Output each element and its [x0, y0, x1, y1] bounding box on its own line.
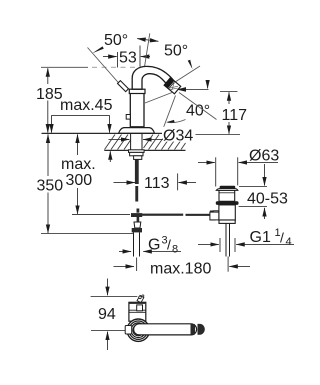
- dimension max.300: [77, 134, 79, 155]
- supply elbow left clip: [125, 326, 132, 335]
- svg-text:117: 117: [222, 107, 248, 124]
- max.180 left extension: [136, 258, 138, 272]
- svg-text:max.: max.: [61, 156, 96, 173]
- G1 1/4 dimension: [219, 238, 221, 252]
- bottom arc arrow: [168, 120, 186, 123]
- drain plug top: [220, 186, 236, 189]
- mounting washer: [129, 150, 145, 153]
- linkage connector: [137, 209, 140, 213]
- drain body: [219, 205, 235, 220]
- max.300 bottom reference line: [72, 214, 130, 216]
- faucet escutcheon: [119, 128, 155, 134]
- supply elbow top stub: [137, 295, 144, 302]
- pop-up rod linkage thin line: [72, 214, 130, 216]
- shallow construction line: [145, 93, 172, 104]
- svg-text:4: 4: [286, 236, 292, 248]
- deck line right tick: [192, 133, 240, 135]
- 40 deg arc arrow tick: [207, 81, 209, 89]
- steep construction line: [164, 96, 176, 128]
- deck hatching left: [105, 135, 131, 150]
- diameter 34 arrows: [109, 138, 130, 140]
- svg-text:350: 350: [37, 178, 64, 195]
- svg-text:40-53: 40-53: [247, 191, 288, 208]
- drain clevis: [210, 211, 213, 220]
- collar: [129, 89, 145, 93]
- dimension 40-53: [264, 164, 266, 175]
- svg-text:Ø63: Ø63: [249, 147, 279, 164]
- faucet shank through deck: [130, 133, 132, 150]
- supply elbow vertical body: [129, 302, 146, 321]
- drain tailpipe: [226, 223, 230, 256]
- 50 deg right arc arrow: [188, 60, 193, 70]
- diameter 63 dimension: [198, 162, 215, 164]
- svg-text:/: /: [280, 230, 284, 246]
- svg-text:185: 185: [36, 86, 63, 103]
- svg-text:max.180: max.180: [150, 261, 211, 278]
- pipe end ring: [191, 324, 196, 335]
- svg-text:max.45: max.45: [60, 97, 113, 114]
- 50 deg left arc arrow: [92, 46, 104, 53]
- dimension 350: [47, 134, 49, 176]
- svg-text:113: 113: [144, 175, 170, 192]
- spout swivel extension line: [143, 33, 150, 77]
- deck hatching right: [144, 135, 186, 150]
- outlet axis line 40 deg: [179, 93, 217, 120]
- pop-up knob: [126, 115, 130, 120]
- drain gasket: [216, 201, 239, 205]
- svg-text:94: 94: [98, 306, 116, 323]
- horizontal pop-up linkage rod: [142, 214, 184, 216]
- threaded mounting stud: [135, 159, 139, 184]
- drain lever port: [210, 212, 219, 220]
- aerator: [164, 78, 181, 94]
- dimension 185: [47, 68, 49, 84]
- supply elbow flange rings: [127, 319, 149, 341]
- G3/8 dimension: [119, 250, 131, 252]
- svg-text:G: G: [148, 237, 160, 254]
- drain flange dome: [216, 189, 238, 191]
- faucet body: [130, 93, 144, 127]
- svg-text:50°: 50°: [104, 32, 128, 49]
- outlet axis extension up-right: [172, 66, 200, 84]
- svg-text:300: 300: [66, 172, 93, 189]
- dimension 113: [114, 182, 126, 184]
- svg-text:G1: G1: [250, 229, 271, 246]
- dimension 94: [107, 279, 109, 296]
- G3/8 connector tube: [134, 232, 140, 256]
- deck bottom line: [104, 149, 185, 151]
- dimension max.180: [114, 265, 135, 267]
- svg-text:/: /: [167, 237, 171, 253]
- svg-text:Ø34: Ø34: [163, 128, 193, 145]
- supply elbow horizontal pipe: [134, 324, 197, 335]
- lever handle: [118, 81, 129, 92]
- horizontal reference at outlet: [177, 88, 209, 90]
- svg-text:53: 53: [119, 50, 137, 67]
- G3/8 union nut: [132, 228, 142, 232]
- lever axis line (50 deg): [88, 48, 124, 89]
- deck top line: [42, 132, 163, 134]
- pipe end cap: [198, 324, 205, 335]
- svg-text:50°: 50°: [164, 43, 188, 60]
- top reference line (spout height datum): [41, 66, 88, 68]
- 350 bottom reference line: [41, 233, 133, 235]
- drain locknut: [219, 220, 235, 223]
- mounting nut: [130, 152, 143, 155]
- spout tube: [132, 66, 173, 89]
- 50 deg right dimension line with arrows: [137, 39, 158, 42]
- dimension 117: [220, 90, 238, 92]
- svg-text:40°: 40°: [186, 103, 210, 120]
- svg-text:8: 8: [172, 244, 178, 256]
- drain flange body: [219, 190, 235, 201]
- label diameter 34: [163, 127, 196, 142]
